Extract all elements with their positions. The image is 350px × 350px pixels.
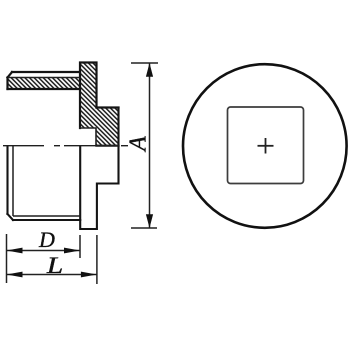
- svg-text:L: L: [46, 252, 63, 278]
- svg-text:A: A: [126, 136, 152, 153]
- svg-text:D: D: [38, 227, 55, 252]
